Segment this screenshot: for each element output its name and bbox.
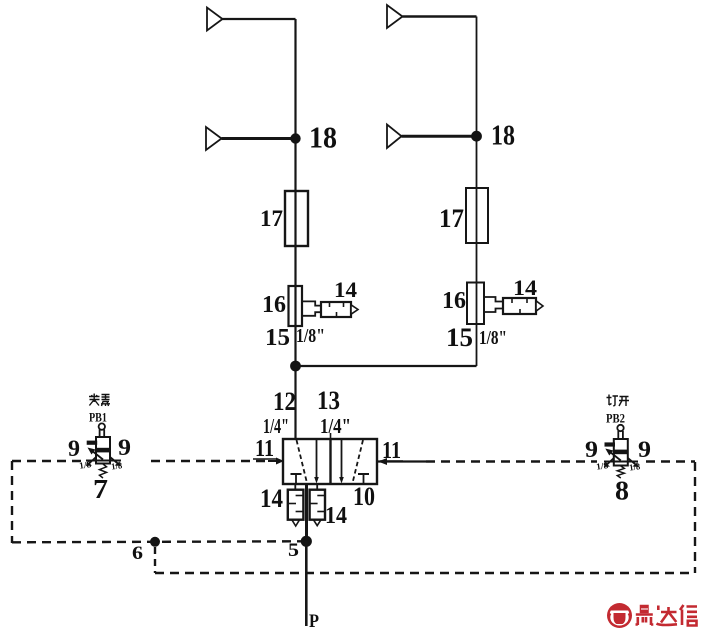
- wire: horizontal link between branches: [296, 365, 477, 367]
- svg-text:17: 17: [260, 206, 283, 231]
- check valve 16 left body: [289, 286, 303, 326]
- muffler 14 right: [503, 298, 543, 314]
- pilot port arrow right into valve: [377, 458, 426, 465]
- svg-text:15: 15: [265, 325, 290, 351]
- filter 17 right: [466, 188, 488, 243]
- wire: dashed right wall: [694, 462, 696, 573]
- valve dashed diagonal left: [297, 440, 308, 483]
- svg-text:PB2: PB2: [606, 411, 625, 426]
- silencer 14 lower-left: [288, 490, 304, 526]
- svg-text:12: 12: [273, 387, 296, 416]
- nozzle arrow A2 left: [206, 127, 296, 150]
- svg-text:8: 8: [615, 476, 629, 506]
- wire: dashed pilot left run: [12, 460, 82, 462]
- valve U1 5/2 body: [283, 439, 377, 484]
- line under 11 left: [253, 458, 276, 460]
- svg-text:1/8: 1/8: [79, 459, 93, 471]
- svg-text:1/8: 1/8: [110, 460, 123, 471]
- muffler 14 left: [321, 302, 358, 317]
- svg-text:11: 11: [255, 436, 274, 462]
- svg-text:14: 14: [513, 275, 537, 300]
- wire: dashed drop from node 6: [154, 547, 156, 573]
- svg-text:6: 6: [132, 543, 143, 564]
- port 13 stub on valve top: [330, 433, 332, 439]
- svg-text:1/4": 1/4": [320, 414, 351, 438]
- wire: dashed left wall: [11, 461, 13, 543]
- svg-text:17: 17: [439, 204, 464, 233]
- wire: dashed pilot right runs: [426, 460, 597, 462]
- silencer stub right under valve: [316, 484, 318, 490]
- wire: dashed bottom-left run to node 5: [12, 541, 301, 542]
- wire: dashed bottom return run: [155, 572, 695, 574]
- svg-text:P: P: [309, 611, 319, 632]
- tee fitting right between 16 and 14: [484, 297, 503, 312]
- svg-text:9: 9: [68, 436, 80, 461]
- svg-text:1/8": 1/8": [479, 327, 507, 349]
- svg-text:18: 18: [309, 120, 337, 155]
- check valve 16 right body: [467, 283, 484, 325]
- svg-text:1/4": 1/4": [263, 414, 289, 438]
- svg-text:7: 7: [93, 474, 108, 504]
- svg-text:14: 14: [260, 484, 283, 513]
- filter 17 left: [285, 191, 308, 246]
- valve blocked port T left: [291, 474, 302, 484]
- svg-text:PB1: PB1: [89, 410, 107, 425]
- nozzle arrow A1 top-left: [207, 8, 296, 31]
- svg-text:5: 5: [288, 540, 299, 561]
- node 6 junction dot: [150, 537, 160, 547]
- wire: supply line P: [305, 541, 308, 626]
- logo text Xin: [680, 605, 697, 626]
- svg-text:16: 16: [442, 288, 466, 314]
- svg-text:11: 11: [382, 438, 401, 464]
- nozzle arrow A4 right: [387, 125, 477, 149]
- valve position divider: [329, 439, 331, 484]
- valve flow arrow right cell vertical: [339, 439, 344, 484]
- label JiaJin (clamp) chinese above PB1: [89, 394, 110, 407]
- pushbutton valve 7 (PB1): [86, 423, 121, 478]
- node 5 junction dot: [301, 536, 312, 547]
- pushbutton valve 8 (PB2): [604, 425, 638, 478]
- svg-text:1/8: 1/8: [596, 460, 610, 472]
- svg-text:16: 16: [262, 292, 286, 318]
- logo text Ding: [636, 606, 654, 626]
- valve dashed diagonal right: [353, 440, 364, 483]
- nozzle arrow A3 top-right: [387, 5, 477, 28]
- node 18 left junction dot: [290, 133, 300, 143]
- wire: right branch vertical main line: [476, 17, 478, 367]
- label DaKai (open) chinese above PB2: [607, 395, 630, 407]
- svg-text:14: 14: [325, 503, 347, 529]
- silencer 14 lower-right: [310, 490, 325, 526]
- svg-text:1/8": 1/8": [296, 325, 325, 347]
- valve blocked port T right: [358, 474, 369, 484]
- node junction dot joining branches: [290, 361, 301, 372]
- logo text Da: [657, 606, 678, 625]
- svg-text:18: 18: [491, 121, 515, 152]
- tee fitting left between 16 and 14: [302, 301, 321, 315]
- valve flow arrow left cell vertical: [314, 439, 319, 484]
- svg-text:13: 13: [317, 386, 340, 415]
- silencer stub left under valve: [294, 484, 296, 490]
- wire: left branch vertical main line: [294, 19, 296, 439]
- svg-text:10: 10: [353, 482, 375, 511]
- svg-text:9: 9: [585, 437, 598, 462]
- svg-text:15: 15: [446, 323, 473, 352]
- svg-text:9: 9: [118, 435, 131, 460]
- logo emblem red circle: [607, 603, 632, 628]
- node 18 right junction dot: [471, 131, 482, 142]
- svg-text:9: 9: [638, 437, 651, 462]
- pilot port arrow left into valve: [268, 458, 284, 465]
- wire: supply drop from valve to node 5: [305, 484, 308, 541]
- svg-text:1/8: 1/8: [628, 461, 641, 472]
- svg-text:14: 14: [334, 277, 357, 302]
- line under 11 right: [380, 460, 403, 462]
